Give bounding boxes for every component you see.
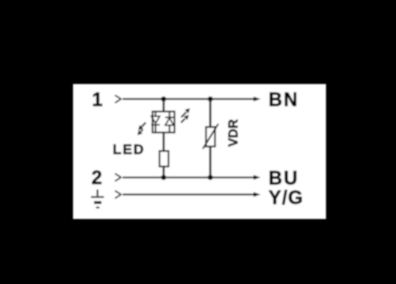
svg-text:1: 1 <box>92 90 103 111</box>
svg-text:LED: LED <box>113 141 145 157</box>
svg-text:BN: BN <box>269 90 299 111</box>
svg-text:VDR: VDR <box>225 119 240 147</box>
svg-text:Y/G: Y/G <box>269 188 304 209</box>
svg-text:2: 2 <box>92 168 103 189</box>
svg-text:BU: BU <box>269 169 299 190</box>
